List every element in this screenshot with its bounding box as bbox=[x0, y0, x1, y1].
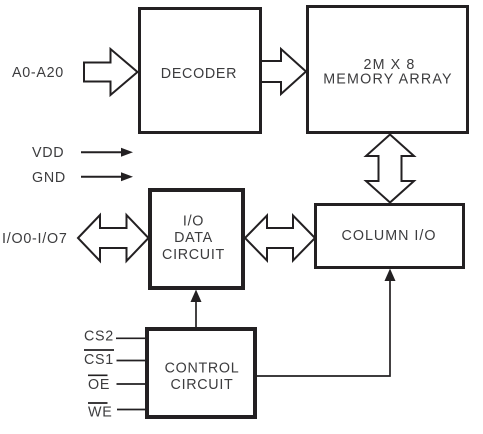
svg-text:CIRCUIT: CIRCUIT bbox=[171, 377, 234, 393]
svg-text:MEMORY ARRAY: MEMORY ARRAY bbox=[323, 72, 453, 88]
column i/o block bbox=[316, 205, 464, 268]
svg-text:CONTROL: CONTROL bbox=[165, 361, 240, 377]
memory to column i/o vertical double block arrow bbox=[366, 135, 414, 203]
svg-text:CS2: CS2 bbox=[84, 329, 114, 345]
i/o data to column i/o double block arrow bbox=[245, 216, 315, 261]
svg-text:A0-A20: A0-A20 bbox=[12, 65, 64, 81]
decoder to memory block arrow bbox=[258, 49, 306, 94]
address bus block arrow into decoder bbox=[84, 49, 138, 95]
label OE (active low) bbox=[88, 375, 110, 393]
label WE (active low) bbox=[88, 403, 112, 420]
svg-text:WE: WE bbox=[88, 404, 112, 420]
i/o data circuit block bbox=[150, 190, 243, 288]
control circuit block bbox=[147, 329, 255, 417]
CS2 wire bbox=[116, 337, 147, 339]
VDD arrow bbox=[81, 148, 133, 157]
label CS1 (active low) bbox=[84, 350, 114, 368]
GND arrow bbox=[81, 172, 133, 181]
svg-text:DATA: DATA bbox=[174, 230, 213, 246]
control to i/o data arrow bbox=[191, 290, 202, 328]
memory array block bbox=[308, 7, 468, 133]
svg-text:COLUMN I/O: COLUMN I/O bbox=[342, 228, 437, 244]
svg-text:I/O0-I/O7: I/O0-I/O7 bbox=[2, 231, 68, 247]
i/o bus double block arrow bbox=[78, 215, 149, 261]
OE wire bbox=[117, 383, 148, 385]
control to column i/o wire and arrow bbox=[257, 269, 396, 377]
svg-text:DECODER: DECODER bbox=[161, 66, 237, 82]
svg-text:VDD: VDD bbox=[32, 145, 64, 161]
WE wire bbox=[117, 409, 147, 411]
svg-text:CS1: CS1 bbox=[84, 352, 114, 368]
decoder block bbox=[140, 9, 261, 133]
svg-text:CIRCUIT: CIRCUIT bbox=[162, 247, 225, 263]
svg-text:GND: GND bbox=[32, 170, 66, 186]
CS1 wire bbox=[117, 360, 148, 362]
svg-text:OE: OE bbox=[88, 377, 110, 393]
svg-text:I/O: I/O bbox=[183, 214, 204, 230]
